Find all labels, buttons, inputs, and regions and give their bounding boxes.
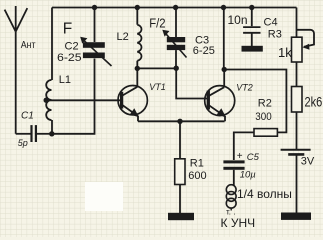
capacitor C5 xyxy=(223,160,244,169)
svg-text:1k: 1k xyxy=(278,45,292,60)
resistor R2 xyxy=(254,129,277,137)
svg-text:F/2: F/2 xyxy=(149,16,165,31)
wire C5 to coil xyxy=(233,170,235,186)
wire C3 node to VT2 base xyxy=(176,68,207,98)
wire VT1 collector xyxy=(136,68,138,86)
node L1 tap xyxy=(44,98,49,103)
left frame wire xyxy=(51,8,53,134)
svg-text:1/4 волны: 1/4 волны xyxy=(237,187,292,201)
svg-text:2k6: 2k6 xyxy=(305,95,323,110)
wire VT1 emitter xyxy=(137,116,139,122)
node top rail C4 xyxy=(249,5,254,10)
svg-text:R1: R1 xyxy=(190,157,204,169)
wire C3 to node xyxy=(175,50,177,68)
node R1 xyxy=(177,119,182,124)
transistor VT1 xyxy=(118,86,147,118)
svg-text:R3: R3 xyxy=(268,29,282,41)
wire L2 to collector node xyxy=(136,61,138,69)
svg-text:5p: 5p xyxy=(18,138,28,148)
wire node to C2 branch xyxy=(52,59,95,134)
node C1/L1 junction xyxy=(49,131,54,136)
wire collector node to R2 xyxy=(224,70,286,133)
svg-text:C1: C1 xyxy=(21,111,34,122)
svg-text:6-25: 6-25 xyxy=(193,45,215,57)
wire rail to R1 xyxy=(179,121,181,159)
wire 2k6 to battery xyxy=(296,112,298,149)
svg-text:10n: 10n xyxy=(228,13,248,27)
antenna Ант xyxy=(5,6,28,134)
svg-text:VT2: VT2 xyxy=(236,83,253,93)
wire rail corner to R3 xyxy=(296,8,298,38)
battery GB1 xyxy=(281,150,311,155)
wire C4 to ground xyxy=(251,33,253,47)
svg-text:К УНЧ: К УНЧ xyxy=(221,216,256,230)
wire L1 tap to VT1 base xyxy=(46,99,120,101)
capacitor C3 plates xyxy=(167,37,185,50)
capacitor C3 trimmer arrow xyxy=(162,30,186,58)
wire C1 to node xyxy=(37,133,52,135)
wire node to C3 node xyxy=(137,67,176,69)
capacitor C4 xyxy=(243,27,260,33)
svg-text:F: F xyxy=(63,21,72,38)
node C3 bottom xyxy=(174,66,179,71)
wire rail to collector node xyxy=(223,8,225,70)
node L2/VT1 collector xyxy=(135,66,140,71)
wire R3 to 2k6 xyxy=(296,62,298,87)
resistor 2k6 xyxy=(292,87,303,113)
capacitor C2 trimmer arrow xyxy=(80,37,111,66)
node VT2 collector branch xyxy=(222,67,227,72)
wire coil end xyxy=(230,208,232,211)
svg-text:C2: C2 xyxy=(65,40,79,52)
wire R2 to C5 xyxy=(234,132,254,160)
emitter rail xyxy=(138,120,225,122)
wire rail to L2 xyxy=(136,8,138,25)
svg-text:R2: R2 xyxy=(258,98,272,110)
capacitor C1 xyxy=(32,125,36,142)
node top rail VT2 xyxy=(221,5,226,10)
inductor L2 xyxy=(137,25,141,61)
svg-text:+: + xyxy=(237,151,243,162)
inductor L1 xyxy=(46,80,51,120)
svg-text:L1: L1 xyxy=(59,74,71,86)
wire VT2 emitter to rail xyxy=(224,116,226,122)
top rail xyxy=(52,7,297,9)
svg-text:10µ: 10µ xyxy=(240,170,257,181)
node top rail L2 xyxy=(135,5,140,10)
wire battery to ground xyxy=(296,156,298,214)
resistor R1 xyxy=(175,159,185,185)
transistor VT2 xyxy=(205,86,235,118)
svg-text:Ант: Ант xyxy=(21,40,36,51)
ground C4 xyxy=(242,46,263,52)
wire R1 to ground xyxy=(179,185,181,214)
potentiometer R3 wiper loop xyxy=(297,30,315,50)
wire VT2 collector xyxy=(223,70,225,87)
svg-text:C5: C5 xyxy=(247,152,260,163)
wire rail to C3 xyxy=(175,8,177,38)
white patch xyxy=(85,182,123,211)
node top rail C2 xyxy=(92,5,97,10)
svg-text:3V: 3V xyxy=(301,156,315,168)
svg-text:300: 300 xyxy=(255,111,271,123)
svg-text:6-25: 6-25 xyxy=(57,52,82,64)
capacitor C2 plates xyxy=(83,42,105,58)
quarter wave coil xyxy=(226,185,236,208)
potentiometer R3 body xyxy=(292,37,303,62)
svg-text:VT1: VT1 xyxy=(149,82,166,92)
node top rail C3 xyxy=(173,5,178,10)
wire antenna to C1 xyxy=(16,133,31,135)
wire rail to C4 xyxy=(251,8,253,27)
svg-text:600: 600 xyxy=(188,170,206,182)
svg-text:C4: C4 xyxy=(264,16,278,28)
ground battery xyxy=(281,213,311,220)
ground R1 xyxy=(168,213,194,220)
svg-text:L2: L2 xyxy=(117,31,129,43)
wire rail to C2 xyxy=(94,8,96,43)
